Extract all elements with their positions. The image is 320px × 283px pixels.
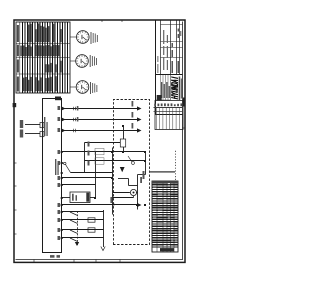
column line [16,73,70,75]
aux grid lines [154,108,184,130]
HYUNDAI logo [172,77,178,99]
wire J1 [62,130,138,132]
switch blade Q4 [70,212,78,216]
wire to X1 [25,133,40,135]
fold mark top [13,103,17,107]
bottom table mush [153,183,178,246]
bus wire P [95,152,97,198]
bus wire T [84,143,86,173]
terminal X2 [40,123,44,128]
wire F [61,197,70,199]
zone tick left [95,260,97,263]
text mush: cable table cells [17,23,62,91]
meter scale ticks [76,31,88,92]
ammeter M1 [70,81,89,94]
arrow J1 [137,128,142,132]
wire bus D [61,211,104,213]
fuse F1 [88,228,95,232]
junction [136,204,138,206]
zone tick top [14,233,17,235]
cable schedule table [16,22,70,93]
bottom table column lines [152,185,178,247]
branch T3 [85,142,124,144]
arrow E [137,203,142,207]
fuse F2 [88,218,95,222]
wire J3 [62,108,138,110]
zone tick left [33,260,35,263]
switch blade Q2 [70,230,78,234]
row lines right section [160,20,162,75]
wire K1 bottom [90,197,96,199]
wire to X2 [25,124,40,126]
pin blobs [61,151,146,239]
title block [156,20,183,115]
lamp L1 [130,189,136,195]
zone tick top [14,185,17,187]
connector ticks J3 [72,107,74,111]
header row [19,22,21,93]
label [140,177,142,183]
wire G [61,184,96,186]
ammeter M2 [70,55,88,68]
wire bus C [61,219,104,221]
contact S2 [132,162,135,165]
zone tick bottom [182,127,185,129]
switch blade Q3 [70,220,78,224]
zone tick left [73,260,75,263]
wire J2 [62,119,138,121]
zone tick left [119,260,121,263]
label [110,197,112,203]
contact box B1 [95,158,104,164]
arrow J3 [137,106,142,110]
branch T1 [85,160,146,162]
arrow node N [101,247,105,251]
column line [16,57,70,59]
wire step [138,174,146,176]
wire L1 feed [113,197,134,199]
pin J3 [62,107,66,111]
sheet frame [14,20,185,262]
wire E [61,204,138,206]
dashed enclosure [114,100,150,245]
margin line bottom [182,22,184,260]
branch wire fuse [123,126,125,152]
lamp L1 leads [113,192,130,194]
bus wire Y [137,175,139,210]
mech linkage dashed [77,212,79,246]
junction [122,125,124,127]
aux table mush [154,103,182,106]
column line [16,43,70,45]
cross bus W [145,152,147,175]
wire staircase [118,178,129,180]
ammeter M3 [70,31,89,44]
zone tick top [14,162,17,164]
text mush: meter labels [90,32,98,94]
controller strip U1 [43,99,62,253]
wire I [71,172,113,174]
switch blade Q1 [70,238,78,242]
strip end cap [55,97,61,101]
relay coil K1 [70,192,90,203]
fuse F3 [120,139,125,147]
text mush: strip labels [20,101,145,258]
bus wire R [112,148,114,215]
bottom terminal table [152,181,178,252]
logo cell rows [160,75,162,100]
zone tick right [121,20,123,22]
fold mark bottom [183,98,185,107]
note text above table [150,171,175,173]
connector ticks J2 [72,118,74,122]
wire bus B [61,229,104,231]
zone tick right [101,20,103,22]
terminal X1 [40,132,44,137]
pin J2 [62,118,66,122]
connector ticks J1 [72,129,74,133]
zone tick top [14,209,17,211]
wire bus A [61,237,104,239]
contact S1 [64,162,66,164]
arrow J2 [137,117,142,121]
table row lines [22,22,67,93]
wire H [61,177,113,179]
margin line left [16,259,183,261]
column lines right section [161,57,183,59]
contact box B2 [95,148,104,154]
dashed line aux [175,150,177,180]
pin S1 [61,162,64,164]
linkage arrow [75,242,79,246]
arrow node V [120,167,125,172]
branch T2 [61,151,146,153]
aux grid table [155,101,183,130]
title block text [157,29,182,101]
bus wire N [103,210,105,247]
pin J1 [62,129,66,133]
